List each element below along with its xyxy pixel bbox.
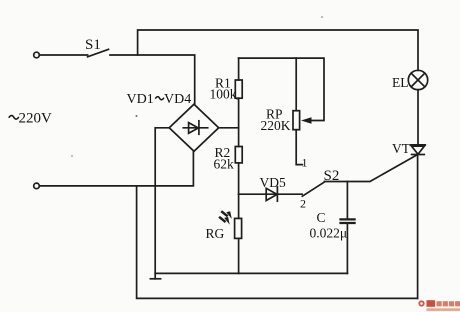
svg-text:VD1: VD1 xyxy=(127,92,154,107)
svg-text:EL: EL xyxy=(392,75,409,90)
svg-text:VD5: VD5 xyxy=(260,175,286,190)
svg-text:0.022μ: 0.022μ xyxy=(310,226,348,241)
svg-text:100k: 100k xyxy=(210,87,237,102)
svg-text:RG: RG xyxy=(206,226,225,241)
svg-text:220V: 220V xyxy=(19,111,53,127)
svg-text:VD4: VD4 xyxy=(164,92,191,107)
svg-text:220K: 220K xyxy=(261,118,291,133)
svg-text:VT: VT xyxy=(392,141,411,156)
svg-text:S2: S2 xyxy=(324,168,340,184)
svg-text:1: 1 xyxy=(302,156,308,170)
svg-text:62k: 62k xyxy=(214,157,235,172)
svg-text:S1: S1 xyxy=(85,37,101,53)
svg-text:C: C xyxy=(317,210,326,225)
svg-text:2: 2 xyxy=(300,197,306,211)
